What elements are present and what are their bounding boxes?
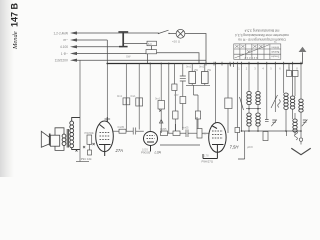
svg-text:7,5H: 7,5H: [230, 145, 240, 150]
svg-text:0m1: 0m1: [186, 65, 192, 69]
svg-text:2W: 2W: [194, 68, 198, 72]
svg-text:0m1: 0m1: [117, 94, 123, 98]
svg-text:2W: 2W: [207, 68, 211, 72]
svg-text:Dauerhochspannungen B - R na: Dauerhochspannungen B - R na: [238, 38, 285, 42]
svg-text:110/220V: 110/220V: [55, 59, 69, 63]
svg-text:Sender: Sender: [271, 54, 279, 57]
svg-text:0m1: 0m1: [155, 97, 161, 101]
svg-text:Wellen: Wellen: [271, 46, 279, 49]
svg-text:1 Φ~: 1 Φ~: [61, 52, 68, 56]
svg-text:P9C50k: P9C50k: [85, 131, 95, 135]
svg-text:Mende: Mende: [12, 31, 19, 50]
svg-text:m~: m~: [63, 38, 68, 42]
svg-text:mit Beanstandung 3,5,4: mit Beanstandung 3,5,4: [244, 29, 279, 33]
svg-text:L3A: L3A: [155, 150, 162, 154]
svg-text:1,2-2,4kW: 1,2-2,4kW: [53, 31, 68, 35]
svg-text:Betrieb: Betrieb: [271, 50, 280, 53]
svg-text:GW: GW: [126, 55, 131, 59]
svg-text:0m05: 0m05: [182, 126, 189, 130]
svg-text:Rat: Rat: [286, 68, 290, 72]
svg-text:0m1: 0m1: [131, 94, 137, 98]
svg-text:6,3: 6,3: [148, 42, 152, 46]
svg-text:0M25: 0M25: [160, 127, 167, 131]
svg-text:μF/0: μF/0: [247, 145, 253, 149]
svg-text:147 B: 147 B: [10, 2, 20, 27]
svg-text:≈20 Ω: ≈20 Ω: [172, 40, 181, 44]
svg-text:0m05: 0m05: [118, 125, 125, 129]
svg-text:+30: +30: [202, 132, 207, 136]
svg-text:nachsehen eine Beanstandung 5,: nachsehen eine Beanstandung 5,3,4: [235, 33, 289, 37]
svg-text:1003: 1003: [142, 147, 148, 151]
svg-text:1 2 1 2 1 2: 1 2 1 2 1 2: [244, 56, 258, 60]
svg-text:0m1: 0m1: [199, 65, 205, 69]
svg-text:4.100: 4.100: [60, 45, 68, 49]
svg-text:P9H/27Ω: P9H/27Ω: [202, 160, 213, 164]
svg-text:4/0³: 4/0³: [174, 93, 179, 97]
svg-text:27A: 27A: [115, 148, 124, 153]
svg-text:1,78: 1,78: [204, 154, 210, 158]
svg-text:P9C 10k: P9C 10k: [81, 157, 92, 161]
